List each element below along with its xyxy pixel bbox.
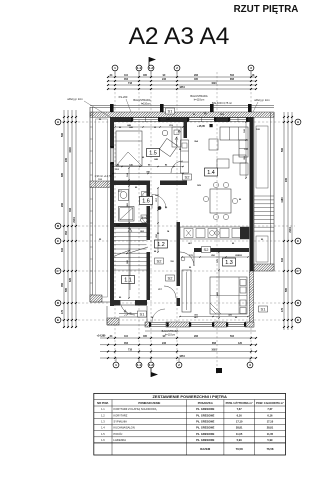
svg-text:283: 283 (194, 74, 199, 77)
svg-text:POW. UŻYTKOWA m²: POW. UŻYTKOWA m² (226, 401, 253, 405)
svg-text:1.3: 1.3 (225, 260, 233, 266)
svg-text:1091: 1091 (211, 82, 217, 85)
svg-text:930: 930 (65, 157, 68, 162)
svg-text:2104: 2104 (289, 227, 292, 233)
svg-text:1040: 1040 (69, 147, 72, 153)
svg-text:1091: 1091 (211, 349, 217, 352)
svg-text:17,10: 17,10 (267, 420, 274, 424)
svg-text:1854: 1854 (179, 355, 185, 358)
svg-text:1.5: 1.5 (149, 150, 157, 156)
svg-text:BALUSTRADA: BALUSTRADA (133, 98, 151, 102)
svg-text:28,81: 28,81 (236, 426, 243, 430)
svg-text:KS-200: KS-200 (119, 95, 128, 99)
svg-text:=110cm: =110cm (141, 101, 150, 105)
svg-text:1.1: 1.1 (101, 407, 105, 411)
svg-text:170: 170 (281, 307, 284, 312)
svg-text:PŁ. GRESOWE: PŁ. GRESOWE (196, 432, 215, 436)
svg-text:353: 353 (124, 342, 129, 345)
svg-text:ZESTAWIENIE POWIERZCHNI I PIĘT: ZESTAWIENIE POWIERZCHNI I PIĘTRA (152, 394, 226, 399)
svg-text:1854: 1854 (179, 86, 185, 89)
svg-text:7,67: 7,67 (267, 407, 273, 411)
svg-text:6,16: 6,16 (237, 413, 243, 417)
svg-text:120: 120 (238, 342, 243, 345)
svg-text:+14,380: +14,380 (97, 335, 106, 338)
svg-text:610: 610 (61, 247, 64, 252)
svg-text:S1: S1 (261, 306, 267, 311)
svg-text:11,05: 11,05 (236, 432, 243, 436)
svg-text:858: 858 (230, 78, 235, 81)
svg-text:564: 564 (230, 335, 235, 338)
svg-text:NR POM.: NR POM. (97, 401, 109, 405)
svg-text:1.2: 1.2 (101, 413, 105, 417)
svg-text:820: 820 (69, 277, 72, 282)
svg-text:858: 858 (212, 342, 217, 345)
svg-text:1.2: 1.2 (149, 363, 154, 367)
svg-text:2104: 2104 (73, 217, 76, 223)
svg-text:585: 585 (285, 287, 288, 292)
svg-text:110: 110 (124, 335, 129, 338)
svg-text:E: E (297, 318, 299, 322)
svg-text:S1: S1 (140, 311, 146, 316)
svg-text:110: 110 (124, 74, 129, 77)
svg-text:+15,05: +15,05 (197, 125, 205, 128)
svg-text:PŁ. GRESOWE: PŁ. GRESOWE (196, 438, 215, 442)
svg-text:718: 718 (128, 82, 133, 85)
svg-text:S2: S2 (168, 275, 174, 280)
svg-text:353: 353 (124, 78, 129, 81)
svg-text:S1: S1 (168, 108, 174, 113)
svg-text:PŁ. GRESOWE: PŁ. GRESOWE (196, 407, 215, 411)
svg-text:1.5: 1.5 (101, 432, 105, 436)
svg-text:ŁAZIENKA: ŁAZIENKA (114, 438, 127, 442)
svg-text:E: E (57, 318, 59, 322)
svg-text:odbój gr. 2cm: odbój gr. 2cm (67, 97, 83, 101)
svg-text:1.1: 1.1 (137, 66, 142, 70)
svg-text:BALKON 3,75 m²: BALKON 3,75 m² (212, 101, 232, 105)
svg-text:S2: S2 (204, 247, 210, 252)
svg-text:2: 2 (176, 66, 178, 70)
svg-text:BALUSTRADA: BALUSTRADA (190, 94, 208, 98)
svg-text:5,99: 5,99 (237, 438, 243, 442)
svg-text:3: 3 (249, 363, 251, 367)
svg-text:PŁ. GRESOWE: PŁ. GRESOWE (196, 420, 215, 424)
svg-text:h=110cm: h=110cm (165, 333, 175, 336)
svg-text:930: 930 (285, 177, 288, 182)
svg-text:1.1: 1.1 (124, 277, 132, 283)
svg-text:3: 3 (250, 66, 252, 70)
svg-text:POW. CAŁKOWITA m²: POW. CAŁKOWITA m² (256, 401, 284, 405)
svg-text:353: 353 (65, 230, 68, 235)
svg-text:KORYTARZ Z KLATKĄ SCHODOWĄ: KORYTARZ Z KLATKĄ SCHODOWĄ (114, 407, 157, 411)
svg-text:KORYTARZ: KORYTARZ (114, 413, 128, 417)
svg-text:1.1: 1.1 (137, 363, 142, 367)
svg-text:1.3: 1.3 (101, 420, 105, 424)
svg-text:1.4: 1.4 (101, 426, 105, 430)
svg-text:C': C' (297, 269, 300, 273)
svg-text:PŁ. GRESOWE: PŁ. GRESOWE (196, 426, 215, 430)
svg-text:6,16: 6,16 (267, 413, 273, 417)
svg-text:1,93 m² +14,79: 1,93 m² +14,79 (95, 175, 112, 178)
svg-text:PŁ. GRESOWE: PŁ. GRESOWE (196, 413, 215, 417)
svg-text:odbój gr. 2cm: odbój gr. 2cm (254, 98, 270, 102)
svg-text:233: 233 (162, 342, 167, 345)
svg-text:SYPIALNIA: SYPIALNIA (114, 420, 128, 424)
svg-text:233: 233 (162, 78, 167, 81)
svg-text:283: 283 (194, 335, 199, 338)
svg-text:362: 362 (69, 207, 72, 212)
svg-text:RAZEM: RAZEM (200, 447, 211, 451)
svg-text:17,10: 17,10 (236, 420, 243, 424)
svg-text:1.6: 1.6 (101, 438, 105, 442)
svg-text:S2: S2 (185, 174, 191, 179)
svg-text:465: 465 (194, 78, 199, 81)
svg-text:5,99: 5,99 (267, 438, 273, 442)
svg-text:564: 564 (230, 74, 235, 77)
svg-text:260: 260 (61, 202, 64, 207)
svg-text:1.2: 1.2 (157, 242, 165, 248)
svg-text:7,67: 7,67 (237, 407, 243, 411)
svg-text:RZUT PIĘTRA: RZUT PIĘTRA (234, 4, 299, 15)
svg-text:590: 590 (61, 132, 64, 137)
svg-text:610: 610 (281, 257, 284, 262)
svg-text:1: 1 (114, 66, 116, 70)
svg-text:76,58: 76,58 (266, 447, 273, 451)
svg-text:1.6: 1.6 (142, 198, 150, 204)
svg-text:A2 A3 A4: A2 A3 A4 (129, 23, 230, 50)
svg-text:28,81: 28,81 (267, 426, 274, 430)
svg-text:POSADZKA: POSADZKA (198, 401, 213, 405)
svg-text:170: 170 (61, 309, 64, 314)
svg-text:585: 585 (65, 287, 68, 292)
svg-text:POMIESZCZENIE: POMIESZCZENIE (138, 401, 160, 405)
svg-text:C': C' (57, 269, 60, 273)
svg-text:718: 718 (128, 349, 133, 352)
svg-text:h=110cm: h=110cm (194, 97, 205, 101)
svg-text:2: 2 (178, 363, 180, 367)
svg-text:1180: 1180 (281, 197, 284, 203)
svg-text:590: 590 (281, 147, 284, 152)
svg-text:76,58: 76,58 (236, 447, 243, 451)
svg-text:1.4: 1.4 (207, 170, 215, 176)
svg-text:KUCHNIA/SALON: KUCHNIA/SALON (114, 426, 135, 430)
svg-text:465: 465 (143, 335, 148, 338)
svg-text:1.2: 1.2 (149, 66, 154, 70)
svg-text:350: 350 (61, 282, 64, 287)
svg-text:S2: S2 (157, 258, 163, 263)
svg-text:11,05: 11,05 (267, 432, 274, 436)
svg-text:465: 465 (143, 74, 148, 77)
svg-text:685: 685 (61, 172, 64, 177)
svg-text:1: 1 (115, 363, 117, 367)
